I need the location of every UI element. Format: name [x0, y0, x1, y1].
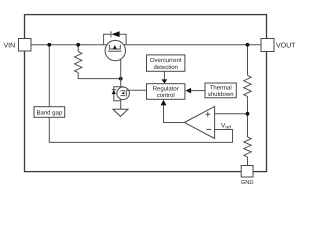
svg-text:detection: detection [154, 64, 178, 71]
Q1 source/drain structure [109, 45, 120, 49]
body diode D1 triangle [111, 31, 119, 37]
resistor R2 upper divider [244, 75, 251, 96]
Regulator control box [147, 84, 185, 100]
Q2 arrow [121, 92, 124, 95]
svg-text:control: control [157, 92, 175, 99]
arrowhead left into regulator control [185, 88, 191, 94]
svg-text:Band gap: Band gap [36, 109, 62, 116]
Q2 channel stubs [121, 91, 126, 96]
VOUT pin square [261, 39, 274, 52]
Overcurrent detection box [147, 55, 185, 71]
wire: thermal shutdown to regulator control [191, 90, 205, 92]
minus sign [206, 128, 211, 130]
body diode loop of Q1 [104, 34, 127, 45]
wire: band gap bottom to Vref bus [49, 117, 232, 142]
wire: Q2 to ground symbol [120, 101, 122, 110]
svg-text:Regulator: Regulator [153, 85, 179, 92]
wire: Q2 gate to regulator control [126, 89, 146, 91]
Q1 body arrow [113, 45, 117, 49]
svg-text:Thermal: Thermal [210, 84, 232, 91]
wire: band gap branch from rail down through band gap to bottom bus [48, 45, 50, 107]
node dot on rail at band gap branch [47, 43, 51, 47]
svg-text:GND: GND [241, 180, 254, 186]
plus sign [205, 112, 210, 117]
GND pin square [241, 166, 253, 178]
Q1 gate bar [108, 50, 122, 52]
op-amp U1 error amplifier [184, 106, 214, 138]
band gap box [34, 107, 65, 118]
Q2 body diode triangle [112, 90, 116, 94]
Q2 body diode bar [112, 89, 116, 91]
svg-text:shutdown: shutdown [208, 91, 234, 98]
svg-text:Overcurrent: Overcurrent [150, 57, 182, 64]
IC outline box [25, 15, 267, 172]
wire: R2 to tap [247, 96, 249, 137]
transistor Q1 pass PMOS circle [105, 40, 125, 60]
wire: gate lead of pass transistor down to gate node and Q2 [120, 51, 122, 87]
transistor Q2 circle [117, 87, 130, 100]
ground symbol [113, 109, 128, 116]
wire: op-amp output to regulator control [164, 106, 185, 123]
svg-text:VOUT: VOUT [276, 43, 296, 50]
node dot gate node [119, 77, 123, 81]
node dot on rail at divider [246, 43, 250, 47]
wire: op-amp + input to divider tap [215, 113, 248, 115]
resistor R1 (gate bias) [75, 52, 82, 73]
wire: overcurrent to regulator control [163, 71, 165, 80]
wire: rail to upper divider resistor [247, 45, 249, 76]
wire: main rail VIN to VOUT [31, 44, 261, 46]
transistor Q2 loop [114, 87, 124, 101]
arrowhead down into regulator control [162, 79, 168, 83]
Q2 gate bar [125, 90, 127, 97]
svg-text:VIN: VIN [4, 42, 16, 49]
wire: rail to gate resistor [77, 45, 79, 52]
body diode D1 cathode bar [110, 31, 112, 37]
arrowhead up into regulator control [161, 100, 167, 106]
node dot on rail at resistor branch [76, 43, 80, 47]
VIN pin square [19, 39, 32, 52]
resistor R3 lower divider [244, 137, 251, 157]
Thermal shutdown box [205, 83, 236, 98]
wire: resistor bottom to gate node [78, 73, 121, 79]
wire: R3 to GND pin [247, 157, 249, 166]
node dot divider tap [246, 112, 250, 116]
